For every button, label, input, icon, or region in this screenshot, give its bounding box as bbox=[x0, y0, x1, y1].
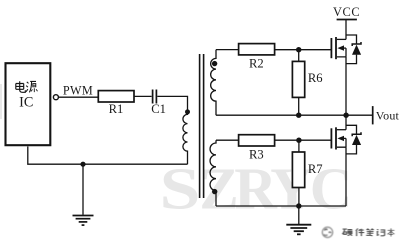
wire R7 to bottom rail bbox=[298, 188, 300, 207]
node R2/R6/gate bbox=[296, 47, 301, 52]
body diode link bottom bbox=[346, 145, 357, 154]
source wire down to rail bbox=[345, 57, 347, 115]
transformer primary winding dot bbox=[185, 109, 190, 114]
svg-text:VCC: VCC bbox=[333, 5, 360, 19]
resistor R3 bbox=[239, 135, 275, 146]
wire to IC box bottom bbox=[28, 147, 83, 165]
svg-text:C1: C1 bbox=[151, 102, 166, 116]
PWM output terminal (open circle) bbox=[53, 95, 58, 100]
resistor R6 bbox=[292, 61, 304, 97]
wire PWM to R1 bbox=[59, 96, 99, 98]
body diode link top bbox=[346, 125, 357, 134]
channel bar bbox=[335, 37, 337, 59]
wire Vout rail bbox=[216, 114, 373, 116]
wire R6 to Vout rail bbox=[298, 97, 300, 115]
transformer secondary winding (top) bbox=[211, 50, 216, 116]
wire junction to ground bbox=[298, 206, 300, 224]
body arrow Q2 bbox=[337, 136, 344, 141]
VCC terminal bar bbox=[337, 19, 357, 21]
svg-text:S: S bbox=[159, 156, 200, 221]
ground (left) bbox=[73, 216, 94, 226]
node mosfet source/rail bbox=[343, 113, 348, 118]
text 电 (dian) bbox=[16, 81, 25, 92]
body diode D2 (schottky cathode bar) bbox=[352, 132, 361, 136]
resistor R1 bbox=[98, 91, 134, 102]
svg-text:R1: R1 bbox=[109, 102, 124, 116]
logo (bottom right) bbox=[322, 227, 332, 237]
svg-text:Z: Z bbox=[199, 156, 238, 222]
svg-text:R3: R3 bbox=[249, 148, 264, 162]
wire R2 to gate node bbox=[275, 49, 331, 51]
硬 bbox=[342, 229, 352, 236]
wire bottom rail bbox=[216, 205, 346, 207]
source stub bbox=[337, 48, 346, 57]
body diode D1 (schottky cathode bar) bbox=[352, 42, 361, 46]
wire VCC to mosfet drain bbox=[345, 20, 347, 40]
svg-text:IC: IC bbox=[19, 95, 33, 111]
wire primary bottom bbox=[83, 163, 188, 165]
wire node to R6 bbox=[298, 50, 300, 62]
wire R3 to gate node 2 bbox=[275, 139, 331, 141]
svg-text:R6: R6 bbox=[308, 71, 323, 85]
svg-text:Y: Y bbox=[270, 156, 313, 222]
svg-text:R7: R7 bbox=[308, 162, 323, 176]
transformer secondary winding (bottom) bbox=[210, 140, 216, 206]
channel bar bbox=[335, 127, 337, 149]
node left junction bbox=[80, 162, 85, 167]
capacitor C1 bbox=[153, 90, 157, 104]
wire secondary bottom to R3 bbox=[216, 139, 239, 141]
body arrow Q1 bbox=[337, 45, 344, 50]
mosfet Q1 (top) bbox=[331, 35, 356, 115]
svg-text:PWM: PWM bbox=[63, 83, 93, 97]
drain stub bbox=[337, 129, 346, 131]
node R3/R7/gate2 bbox=[296, 138, 301, 143]
svg-text:R2: R2 bbox=[249, 57, 264, 71]
gate bar bbox=[330, 38, 332, 58]
body diode D1 triangle bbox=[352, 45, 361, 55]
source wire down to bottom rail bbox=[345, 147, 347, 206]
gate bar bbox=[330, 128, 332, 148]
power IC box U1 bbox=[6, 63, 51, 145]
wire C1 to primary bbox=[157, 96, 187, 109]
transformer core bbox=[200, 54, 204, 198]
node ground junction bbox=[296, 203, 301, 208]
source stub bbox=[337, 138, 346, 147]
Vout terminal bar bbox=[372, 106, 374, 124]
wire junction to ground bbox=[82, 164, 84, 215]
本 bbox=[387, 228, 394, 236]
mosfet Q2 (bottom) bbox=[331, 125, 356, 206]
wire R1 to C1 bbox=[134, 95, 152, 97]
记 bbox=[377, 229, 385, 236]
node R6/rail bbox=[296, 113, 301, 118]
wire bottom mosfet drain bbox=[345, 115, 347, 130]
wire secondary top to R2 bbox=[216, 49, 239, 51]
svg-text:Vout: Vout bbox=[376, 109, 400, 123]
text 硬件笔记本 (gray) bbox=[342, 228, 394, 236]
ground (right) bbox=[286, 225, 311, 235]
body diode D2 triangle bbox=[352, 135, 361, 145]
wire node to R7 bbox=[298, 140, 300, 152]
transformer primary winding bbox=[183, 110, 188, 165]
watermark left-edge sliver bbox=[0, 84, 2, 119]
件 bbox=[356, 228, 364, 236]
body diode link bottom bbox=[346, 55, 357, 64]
body stub bbox=[344, 137, 347, 139]
body diode link top bbox=[346, 35, 357, 44]
resistor R7 bbox=[292, 152, 304, 188]
drain stub bbox=[337, 38, 346, 40]
resistor R2 bbox=[239, 44, 275, 55]
secondary bottom winding dot bbox=[212, 189, 217, 194]
text 源 (yuan) bbox=[26, 81, 38, 92]
body stub bbox=[344, 47, 347, 49]
笔 bbox=[366, 228, 374, 235]
secondary top winding dot bbox=[212, 61, 217, 66]
